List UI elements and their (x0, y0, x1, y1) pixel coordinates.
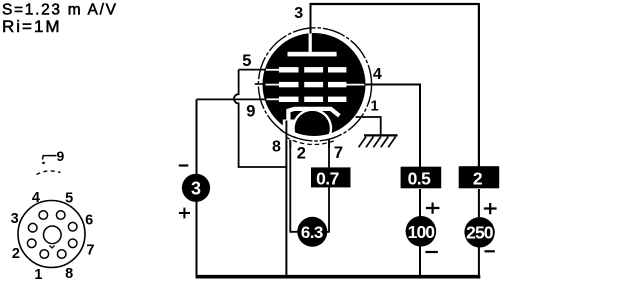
svg-text:0.7: 0.7 (316, 168, 339, 188)
svg-text:8: 8 (272, 138, 281, 155)
pin 9 dashed arc (37, 171, 61, 175)
svg-text:5: 5 (65, 191, 73, 207)
svg-text:3: 3 (11, 211, 19, 227)
socket key notch (50, 246, 55, 249)
grid g3 lead white (267, 98, 281, 100)
svg-text:6: 6 (85, 213, 93, 229)
tube envelope restroke across leads (280, 129, 296, 137)
grid g1 row dashes (279, 67, 347, 72)
wire pin9 to grid bus (197, 98, 267, 100)
svg-text:1: 1 (371, 98, 379, 114)
wire heater pin2 lead (290, 140, 298, 232)
wire pin1 to ground (356, 117, 381, 135)
resistor box 0.7 (311, 167, 351, 188)
battery 3V plus sign (179, 208, 190, 219)
battery 3V minus sign (179, 164, 189, 166)
svg-text:3: 3 (191, 178, 201, 198)
socket pin hole 6 (68, 222, 77, 231)
svg-text:100: 100 (408, 222, 436, 242)
socket base diagram (11, 148, 95, 283)
wire cathode lead to ground bus (285, 121, 287, 278)
anode supply plus sign (484, 203, 497, 214)
resistor box 2 (459, 166, 500, 188)
pin 9 dot (42, 162, 44, 164)
grid g1 lead white (266, 69, 280, 71)
svg-text:0.5: 0.5 (408, 168, 432, 188)
tube V1 pentode (258, 28, 371, 148)
svg-text:1: 1 (34, 267, 42, 283)
pin 9 pointer line (43, 156, 57, 160)
wire pin5 to cathode link (238, 166, 287, 168)
wire left grid bus down (196, 99, 198, 277)
svg-text:7: 7 (86, 243, 94, 259)
wire HT drop to box 2 (478, 3, 480, 168)
screen supply plus sign (426, 203, 440, 214)
svg-text:4: 4 (373, 66, 382, 83)
svg-text:2: 2 (12, 246, 20, 262)
cathode white bar (288, 109, 339, 122)
wire HT column below box 2 (478, 189, 480, 277)
anode supply 250V circle (464, 217, 494, 247)
socket pin hole 7 (68, 239, 77, 248)
screen supply minus sign (425, 251, 437, 253)
socket outline (18, 201, 85, 268)
wire pin4 to screen column (365, 85, 420, 168)
svg-text:2: 2 (297, 145, 306, 163)
value label S=1.23 mA/V and Ri=1M (2, 2, 118, 36)
tube envelope outer circle (258, 28, 371, 141)
svg-text:4: 4 (32, 190, 40, 206)
svg-text:5: 5 (242, 52, 251, 70)
svg-text:250: 250 (466, 223, 494, 243)
socket pin hole 5 (56, 211, 65, 220)
tube electrode disc (263, 33, 366, 136)
battery Ug 3V circle (182, 174, 210, 202)
socket center spigot (44, 226, 62, 244)
grid g2 row dashes (279, 82, 347, 87)
heater filament white arc (293, 110, 330, 135)
anode supply minus sign (485, 250, 495, 252)
resistor box 0.5 (401, 167, 442, 189)
svg-text:7: 7 (334, 144, 343, 162)
anode bar (288, 52, 337, 57)
wire grid2 left stub (255, 83, 265, 85)
anode stem white (309, 33, 312, 52)
wire screen column below box 0.5 (419, 189, 421, 277)
svg-text:3: 3 (294, 5, 303, 22)
wire bottom ground bus (196, 275, 481, 279)
grid g3 row dashes (279, 97, 347, 102)
socket pin hole 8 (57, 250, 66, 259)
wire anode drop from top bus (310, 3, 312, 34)
svg-text:9: 9 (57, 148, 65, 164)
socket pin hole 2 (27, 239, 36, 248)
wire heater pin7 lead (327, 139, 329, 232)
svg-text:8: 8 (65, 266, 73, 282)
heater lead restrokes (286, 121, 329, 149)
wire pin5 vertical with hop over grid wire (234, 70, 239, 167)
ground symbol (359, 135, 398, 147)
socket pin hole 4 (39, 211, 48, 220)
wire pin5 stub (239, 69, 266, 71)
screen supply 100V circle (406, 216, 437, 247)
svg-text:6.3: 6.3 (301, 223, 323, 242)
svg-text:9: 9 (246, 103, 255, 121)
grid g2 leads white (266, 84, 365, 86)
socket pin hole 3 (28, 223, 37, 232)
svg-text:2: 2 (473, 168, 483, 188)
wire top bus anode to HT (310, 3, 479, 5)
cathode lead white channel (283, 120, 295, 142)
svg-text:Ri=1M: Ri=1M (2, 17, 62, 36)
heater supply 6.3V circle (297, 217, 327, 247)
tube envelope dashed arc below notch (286, 137, 336, 144)
socket pin hole 1 (40, 250, 49, 259)
